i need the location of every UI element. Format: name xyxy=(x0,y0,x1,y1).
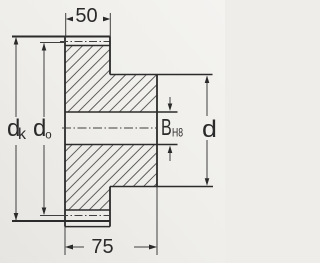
dimension do line xyxy=(43,44,45,215)
axis center dash-dot line xyxy=(62,127,157,129)
gear bottom edge xyxy=(65,226,110,228)
dimension 50 tick right xyxy=(109,13,111,37)
hatching upper section xyxy=(40,0,260,122)
dimension 75 arrow left xyxy=(65,245,73,250)
dimension dk line xyxy=(15,38,17,220)
dimension do arrow bottom xyxy=(42,208,47,216)
dimension 75 line left segment xyxy=(72,246,84,248)
dimension 50 arrow left xyxy=(66,17,73,22)
gear top tip line / dk extension xyxy=(12,36,110,38)
hub bottom edge / d extension xyxy=(110,186,213,188)
gear right edge lower xyxy=(109,187,111,227)
bore top line xyxy=(65,111,178,113)
bottom tip line / dk extension xyxy=(12,220,110,222)
svg-text:d: d xyxy=(202,116,217,142)
svg-text:H8: H8 xyxy=(172,127,183,139)
dimension d arrow top xyxy=(205,76,210,84)
dimension B arrow lower xyxy=(169,153,171,161)
bottom root line xyxy=(65,209,110,211)
dimension d line xyxy=(206,77,208,185)
dimension B arrow upper xyxy=(169,97,171,104)
gear right edge upper xyxy=(109,37,111,75)
svg-text:50: 50 xyxy=(75,5,97,27)
svg-text:o: o xyxy=(45,130,51,142)
hub top edge / d extension xyxy=(110,74,213,76)
svg-text:k: k xyxy=(18,126,27,143)
extension line 75 right xyxy=(156,187,158,256)
top root line xyxy=(65,45,110,47)
bore bottom line xyxy=(65,144,178,146)
hub right edge xyxy=(156,75,158,187)
svg-text:75: 75 xyxy=(91,236,113,258)
dimension do arrow top xyxy=(42,43,47,51)
dimension 75 arrow right xyxy=(149,245,157,250)
dimension 75 line right segment xyxy=(134,246,150,248)
hatching lower section xyxy=(40,66,270,220)
dimension 50 arrow right xyxy=(103,17,110,22)
top pitch dash-dot line / do extension xyxy=(40,42,64,44)
dimension d arrow bottom xyxy=(205,178,210,186)
dimension dk arrow top xyxy=(14,37,19,45)
bottom pitch dash-dot line / do extension xyxy=(40,215,64,217)
svg-text:B: B xyxy=(161,115,172,140)
dimension 50 tick left xyxy=(65,13,67,37)
extension line 75 left xyxy=(64,227,66,255)
gear left edge xyxy=(64,37,66,227)
background xyxy=(0,0,1,1)
dimension dk arrow bottom xyxy=(14,213,19,221)
